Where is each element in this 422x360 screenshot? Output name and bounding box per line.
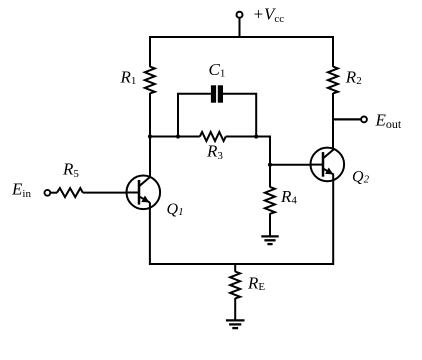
wire Q2 base lead [270,164,311,166]
wire left rail lower [149,202,151,265]
transistor Q2 [310,148,344,182]
terminal Eout [361,117,367,123]
ground below RE [226,320,245,328]
node junction C1 left / R3 [176,134,180,138]
resistor R3 [200,132,226,141]
wire RE top lead [234,264,236,272]
wire right rail upper [332,36,334,67]
terminal +Vcc [237,12,243,18]
wire bottom rail [150,263,333,265]
wire Ein lead left [50,192,57,194]
node junction R4 / Q2 base [268,163,272,167]
wire left rail upper [149,36,151,67]
resistor R5 [57,188,83,197]
wire Eout lead [332,118,361,120]
node junction C1 right / R3 [254,134,258,138]
resistor R4 [265,187,275,214]
wire R5 to Q1 base [83,192,127,194]
resistor R2 [328,67,338,94]
wire right rail middle [332,93,334,149]
ground below R4 [261,236,278,244]
transistor Q1 [126,176,160,210]
wire R3 left lead [149,136,200,138]
wire Vcc stem [239,18,241,38]
wire R3 right lead to corner [226,137,270,166]
wire left rail middle [149,93,151,177]
terminal Ein [45,190,51,196]
capacitor C1 [211,85,223,102]
resistor RE [230,272,240,299]
node junction left rail / R3 [148,134,152,138]
wire right rail lower [332,175,334,266]
wire R4 top lead [269,165,271,188]
wire R4 bottom lead [269,213,271,236]
wire top rail [150,36,333,38]
wire RE bottom lead [234,298,236,320]
resistor R1 [145,67,155,94]
wire C1 branch top-right [223,94,256,137]
wire C1 branch top-left [178,94,211,137]
